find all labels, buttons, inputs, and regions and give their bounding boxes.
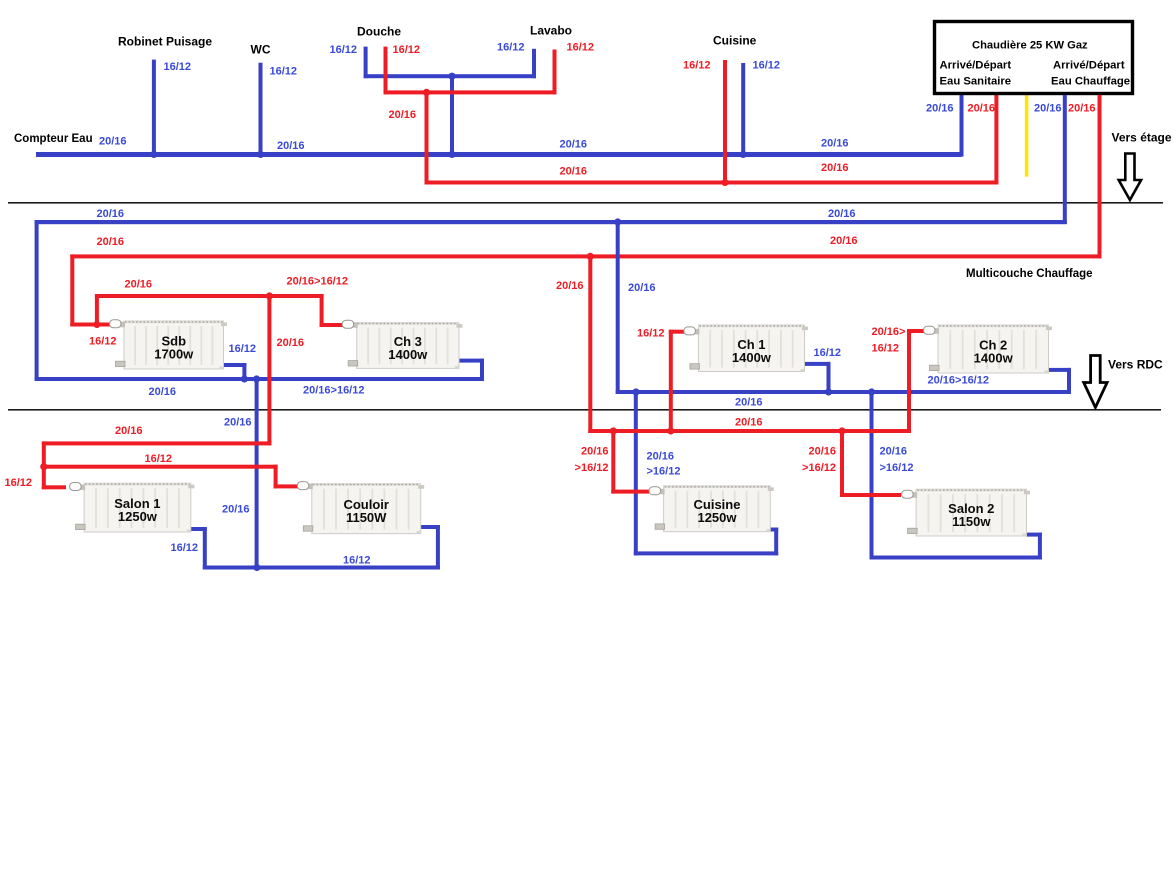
wire ch1 feed horizontal (669, 330, 688, 334)
node sdb feed (93, 321, 100, 328)
wire lavabo hot drop 16/12 (553, 50, 557, 95)
svg-text:Multicouche Chauffage: Multicouche Chauffage (966, 268, 1093, 280)
svg-text:16/12: 16/12 (171, 542, 199, 554)
svg-text:20/16: 20/16 (628, 282, 656, 294)
wire ch2 feed horizontal (907, 329, 930, 333)
svg-text:20/16: 20/16 (115, 425, 143, 437)
svg-text:20/16: 20/16 (224, 417, 252, 429)
wire cuisine outlet horizontal (769, 528, 778, 532)
svg-text:20/16: 20/16 (560, 139, 588, 151)
svg-text:20/16: 20/16 (926, 103, 954, 115)
svg-text:16/12: 16/12 (5, 477, 33, 489)
wire RDC supply top horizontal 20/16 (42, 441, 272, 445)
node main-robinet (150, 151, 157, 158)
wire cold water main 20/16 (36, 152, 962, 157)
wire ch1 outlet horizontal (805, 362, 831, 366)
svg-text:1150W: 1150W (346, 510, 387, 525)
radiator Salon1 1250w (84, 483, 191, 532)
svg-text:1250w: 1250w (118, 509, 158, 524)
svg-text:20/16: 20/16 (735, 397, 763, 409)
wire heating return riser blue (1063, 95, 1067, 224)
wire ch3 outlet blue (458, 359, 484, 363)
node supply main branch (587, 253, 594, 260)
svg-text:16/12: 16/12 (270, 66, 298, 78)
svg-text:16/12: 16/12 (683, 60, 711, 72)
wire header to main (450, 76, 454, 156)
wire RDC-right supply horizontal (588, 429, 911, 433)
svg-text:Eau Chauffage: Eau Chauffage (1051, 76, 1130, 88)
svg-text:16/12: 16/12 (497, 42, 525, 54)
node main-wc (257, 151, 264, 158)
air vent Ch1 (802, 327, 808, 331)
valve Couloir (297, 482, 313, 490)
radiator Ch1 1400w (698, 325, 804, 372)
node hot header (423, 89, 430, 96)
node ch1 return (825, 388, 832, 395)
wire salon1 outlet drop (203, 527, 207, 570)
air vent Sdb (221, 323, 227, 327)
wire couloir outlet horizontal (418, 525, 440, 529)
node return branch down (253, 375, 260, 382)
air vent Cuisine (768, 487, 774, 491)
svg-text:20/16: 20/16 (556, 280, 584, 292)
svg-text:Robinet Puisage: Robinet Puisage (118, 35, 212, 49)
svg-text:Lavabo: Lavabo (530, 24, 572, 38)
svg-text:Arrivé/Départ: Arrivé/Départ (1053, 60, 1125, 72)
wire return left vertical (35, 220, 39, 381)
wire ch3 feed horizontal (320, 323, 345, 327)
svg-text:20/16: 20/16 (968, 103, 996, 115)
wire RDC supply left vertical (42, 441, 46, 489)
wire couloir outlet riser (436, 525, 440, 570)
svg-text:WC: WC (251, 43, 271, 57)
wire Robinet Puisage drop 16/12 (152, 60, 156, 155)
arrow vers étage (1119, 154, 1141, 201)
svg-text:1400w: 1400w (974, 351, 1014, 366)
svg-text:16/12: 16/12 (814, 347, 842, 359)
wire salon2 feed vertical (840, 429, 844, 497)
svg-text:20/16: 20/16 (735, 417, 763, 429)
node supply branch down (266, 292, 273, 299)
svg-text:>16/12: >16/12 (880, 462, 914, 474)
wire red vertical to RDC left (267, 294, 271, 445)
svg-text:16/12: 16/12 (753, 60, 781, 72)
wire ch1 outlet drop (827, 362, 831, 392)
node cuisine return branch (632, 388, 639, 395)
svg-text:1700w: 1700w (154, 347, 194, 362)
radiator Salon2 1150w (916, 489, 1026, 536)
wire ch3 feed elbow down (320, 294, 324, 327)
wire salon2 feed horizontal (840, 493, 901, 497)
valve Ch2 (924, 326, 940, 334)
wire heating supply main red 20/16 (70, 254, 1101, 258)
node sanitary-cuisine (721, 179, 728, 186)
wire sdb outlet drop (242, 363, 246, 379)
svg-text:20/16: 20/16 (1068, 103, 1096, 115)
wire RDC return bottom horizontal (203, 566, 440, 570)
svg-text:20/16: 20/16 (277, 337, 305, 349)
svg-text:20/16: 20/16 (808, 446, 836, 458)
wire salon2 return vertical (870, 392, 874, 560)
svg-text:1150w: 1150w (952, 514, 991, 529)
node return main branch (614, 218, 621, 225)
svg-text:Vers RDC: Vers RDC (1108, 358, 1163, 372)
svg-text:16/12: 16/12 (89, 336, 117, 348)
wire salon2 outlet riser (1038, 533, 1042, 560)
valve Sdb (110, 320, 126, 328)
wire salon1 feed horizontal (42, 485, 66, 489)
radiator Sdb 1700w (124, 321, 224, 369)
svg-text:20/16: 20/16 (277, 140, 305, 152)
svg-text:Chaudière 25 KW Gaz: Chaudière 25 KW Gaz (972, 40, 1088, 52)
node header mid (448, 73, 455, 80)
drain elbow Couloir (303, 526, 313, 531)
svg-text:1400w: 1400w (388, 347, 428, 362)
svg-text:20/16: 20/16 (880, 446, 908, 458)
wire cuisine return bottom horizontal (634, 551, 778, 555)
svg-text:16/12: 16/12 (343, 555, 371, 567)
svg-text:20/16: 20/16 (222, 504, 250, 516)
radiator Ch3 1400w (357, 323, 459, 369)
radiator Ch2 1400w (938, 325, 1049, 373)
wire lavabo cold drop 16/12 (532, 49, 536, 78)
svg-text:20/16: 20/16 (821, 162, 849, 174)
node main-cuisine (740, 151, 747, 158)
wire salon2 return bottom horizontal (870, 556, 1042, 560)
wire cuisine cold drop 16/12 (741, 63, 745, 156)
svg-text:20/16: 20/16 (821, 138, 849, 150)
svg-text:Compteur Eau: Compteur Eau (14, 133, 93, 145)
wire étage return lower main (616, 390, 1071, 394)
drain elbow Salon2 (908, 528, 918, 533)
svg-text:20/16: 20/16 (99, 136, 127, 148)
svg-text:Eau Sanitaire: Eau Sanitaire (940, 76, 1012, 88)
svg-text:1250w: 1250w (697, 510, 737, 525)
gas line (1025, 95, 1029, 177)
air vent Couloir (418, 485, 424, 489)
wire douche hot drop 16/12 (384, 47, 388, 95)
svg-text:16/12: 16/12 (145, 453, 173, 465)
wire douche-lavabo cold header (364, 74, 536, 78)
node sdb return (241, 375, 248, 382)
svg-text:20/16>: 20/16> (872, 326, 906, 338)
air vent Ch3 (457, 324, 463, 328)
wire hot riser to boiler (994, 95, 998, 185)
svg-text:1400w: 1400w (732, 350, 772, 365)
drain elbow Sdb (116, 361, 126, 366)
svg-text:16/12: 16/12 (229, 343, 257, 355)
air vent Salon2 (1024, 491, 1030, 495)
node rdc supply tee (40, 463, 47, 470)
svg-text:20/16: 20/16 (97, 236, 125, 248)
node main-header (448, 151, 455, 158)
wire supply to Sdb valve (70, 323, 114, 327)
valve Salon2 (902, 490, 918, 498)
svg-text:20/16: 20/16 (581, 446, 609, 458)
svg-text:20/16>16/12: 20/16>16/12 (303, 385, 364, 397)
wire sdb outlet blue (221, 363, 246, 367)
wire douche cold drop 16/12 (364, 47, 368, 79)
svg-text:20/16>16/12: 20/16>16/12 (928, 375, 989, 387)
wire return branch vertical (616, 222, 620, 394)
drain elbow Ch3 (348, 361, 358, 366)
wire douche-lavabo hot header (384, 90, 557, 94)
boiler Chaudière box (935, 22, 1133, 94)
wire ch2 feed riser (907, 329, 911, 433)
wire heating return main blue 20/16 (35, 220, 1067, 224)
drain elbow Ch2 (930, 365, 940, 370)
node ch1 feed (667, 427, 674, 434)
wire cuisine hot drop 16/12 (723, 60, 727, 183)
floor line RDC (8, 409, 1161, 411)
wire ch3 outlet drop (480, 359, 484, 381)
svg-text:20/16: 20/16 (389, 109, 417, 121)
wire RDC supply 16/12 horizontal (42, 465, 278, 469)
valve Cuisine (649, 487, 665, 495)
svg-text:20/16: 20/16 (97, 208, 125, 220)
svg-text:16/12: 16/12 (393, 44, 421, 56)
svg-text:>16/12: >16/12 (647, 466, 681, 478)
wire cuisine outlet riser (774, 528, 778, 556)
wire hot sanitary main 20/16 (425, 181, 999, 185)
svg-text:16/12: 16/12 (330, 44, 358, 56)
wire ch2 outlet horizontal (1049, 368, 1072, 372)
wire cuisine feed vertical (611, 429, 615, 494)
svg-text:Douche: Douche (357, 25, 401, 39)
wire cold riser to boiler (960, 95, 964, 157)
svg-text:20/16: 20/16 (830, 235, 858, 247)
wire supply left vertical (70, 254, 74, 326)
wire hot header to sanitary main (425, 92, 429, 184)
svg-text:20/16: 20/16 (1034, 103, 1062, 115)
wire ch1 feed riser (669, 330, 673, 433)
svg-text:20/16: 20/16 (647, 451, 675, 463)
svg-text:>16/12: >16/12 (575, 462, 609, 474)
svg-text:16/12: 16/12 (872, 343, 900, 355)
wire blue vertical to RDC left (255, 377, 259, 570)
radiator Cuisine 1250w (664, 486, 771, 532)
wire cuisine return vertical (634, 392, 638, 555)
arrow vers RDC (1084, 356, 1107, 408)
wire return left bottom horizontal (35, 377, 484, 381)
valve Ch1 (684, 327, 700, 335)
svg-text:16/12: 16/12 (637, 328, 665, 340)
wire salon1 outlet blue (191, 527, 207, 531)
drain elbow Ch1 (690, 364, 700, 369)
wire cuisine feed horizontal (611, 490, 649, 494)
wire salon2 outlet horizontal (1027, 533, 1042, 537)
wire supply branch vertical (588, 256, 592, 433)
wire couloir feed horizontal (274, 484, 301, 488)
wire sdb feed riser up (95, 294, 99, 327)
svg-text:20/16: 20/16 (125, 279, 153, 291)
svg-text:Vers étage: Vers étage (1112, 131, 1172, 145)
floor line étage (8, 202, 1163, 204)
radiator Couloir 1150W (312, 484, 421, 534)
wire WC drop 16/12 (259, 63, 263, 155)
wire supply upper horizontal to Ch3 (95, 294, 324, 298)
node salon2 return branch (868, 388, 875, 395)
svg-text:20/16: 20/16 (828, 208, 856, 220)
svg-text:>16/12: >16/12 (802, 462, 836, 474)
svg-text:20/16: 20/16 (149, 386, 177, 398)
node cuisine feed branch (610, 427, 617, 434)
svg-text:Cuisine: Cuisine (713, 34, 757, 48)
svg-text:20/16: 20/16 (560, 166, 588, 178)
svg-text:20/16>16/12: 20/16>16/12 (287, 276, 348, 288)
valve Salon1 (70, 483, 86, 491)
wire ch2 outlet riser (1067, 368, 1071, 394)
drain elbow Cuisine (655, 524, 665, 529)
wire heating supply riser red (1098, 95, 1102, 258)
wire couloir feed elbow down (274, 465, 278, 489)
svg-text:16/12: 16/12 (164, 61, 192, 73)
valve Ch3 (342, 320, 358, 328)
air vent Ch2 (1046, 327, 1052, 331)
drain elbow Salon1 (76, 524, 86, 529)
svg-text:16/12: 16/12 (567, 42, 595, 54)
svg-text:Arrivé/Départ: Arrivé/Départ (940, 60, 1012, 72)
node salon2 feed branch (838, 427, 845, 434)
node rdc return branch (253, 564, 260, 571)
air vent Salon1 (188, 485, 194, 489)
